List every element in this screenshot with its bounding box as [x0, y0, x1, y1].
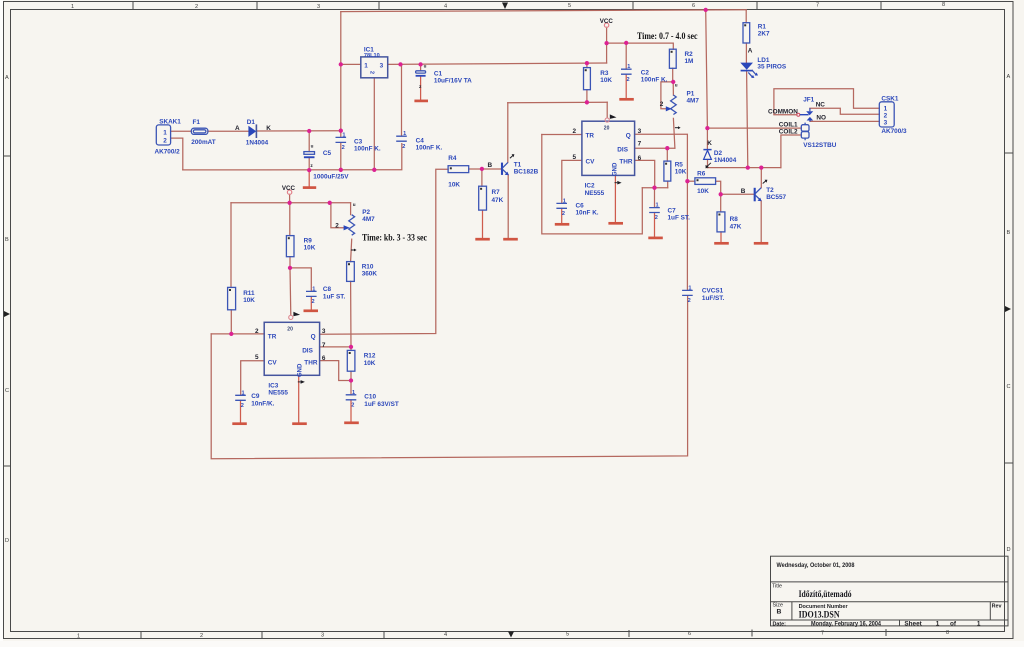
svg-text:2: 2 — [351, 402, 354, 408]
frame center marker left — [4, 311, 10, 317]
svg-text:D1: D1 — [247, 119, 256, 126]
svg-text:u: u — [353, 202, 356, 207]
frame zone numbers top — [71, 2, 945, 10]
wire R3 bottom stub — [586, 90, 588, 103]
svg-text:COMMON: COMMON — [768, 109, 798, 116]
wire IC1 pin1 stub — [341, 63, 361, 65]
svg-text:2: 2 — [342, 145, 345, 151]
svg-text:F1: F1 — [193, 119, 201, 126]
wire C10 top stub — [350, 381, 352, 395]
wire SKAK1 pin1 to F1 — [171, 130, 192, 132]
wire C5 bottom stub — [308, 158, 310, 170]
wire IC2 reset stub — [606, 102, 608, 118]
svg-text:K: K — [707, 140, 712, 147]
svg-text:u: u — [675, 82, 678, 87]
svg-text:1: 1 — [312, 286, 315, 292]
wire R10 bottom to DIS node — [350, 281, 352, 347]
svg-text:THR: THR — [304, 360, 318, 367]
wire C10 ground stub — [350, 400, 352, 422]
svg-text:A: A — [1007, 74, 1011, 80]
ground symbol C8 — [304, 309, 319, 312]
svg-text:1000uF/25V: 1000uF/25V — [313, 174, 349, 181]
svg-text:2: 2 — [255, 328, 259, 335]
wire COIL2 jog — [781, 135, 801, 168]
svg-text:C5: C5 — [323, 150, 332, 157]
ground symbol C7 — [648, 237, 663, 240]
svg-text:360K: 360K — [362, 270, 378, 277]
wire R9 bottom stub — [289, 257, 291, 268]
svg-text:8: 8 — [946, 630, 949, 636]
wire D1 cathode to C3 column (VIN rail) — [256, 130, 340, 132]
svg-text:5: 5 — [255, 354, 259, 361]
svg-text:78L10: 78L10 — [364, 53, 380, 59]
wire top rail to R1 — [745, 10, 747, 23]
wire top rail to relay column x706 — [706, 10, 708, 128]
svg-text:1: 1 — [977, 620, 981, 627]
wire IC3 Q to R4 — [320, 169, 449, 334]
svg-text:7: 7 — [816, 3, 819, 9]
svg-text:2K7: 2K7 — [758, 31, 770, 38]
svg-text:5: 5 — [568, 3, 571, 9]
wire C5 top stub — [308, 131, 310, 152]
svg-text:2: 2 — [655, 215, 658, 221]
ground symbol main — [303, 186, 316, 189]
fuse F1 — [191, 119, 215, 146]
svg-text:3: 3 — [380, 63, 384, 70]
title block — [771, 556, 1009, 626]
svg-text:THR: THR — [619, 159, 633, 166]
wire LED cathode column — [747, 72, 748, 168]
regulator IC1 — [361, 46, 388, 77]
svg-text:1: 1 — [242, 390, 245, 396]
svg-text:10nF K.: 10nF K. — [576, 209, 599, 216]
ground symbol C9 — [232, 422, 247, 425]
svg-text:of: of — [950, 620, 957, 627]
wire R2 bottom to wiper node — [672, 68, 674, 82]
svg-text:u: u — [424, 63, 427, 68]
svg-text:2: 2 — [200, 633, 203, 639]
svg-text:B: B — [741, 188, 746, 195]
svg-text:NC: NC — [816, 102, 826, 109]
wire D2 cathode stub — [706, 128, 708, 149]
wire P2 wiper jog — [331, 203, 344, 228]
node junction dots — [229, 8, 763, 383]
svg-text:10K: 10K — [448, 182, 460, 189]
ground symbol C1 — [414, 100, 428, 103]
frame zone ticks bottom — [141, 629, 886, 639]
wire R4 to T1 base — [469, 168, 502, 170]
svg-text:1: 1 — [163, 130, 167, 137]
svg-text:2: 2 — [573, 128, 577, 135]
svg-text:100nF K.: 100nF K. — [416, 144, 443, 151]
wire C7 ground stub — [654, 213, 656, 237]
svg-text:20: 20 — [604, 125, 610, 131]
svg-text:2: 2 — [627, 77, 630, 83]
capacitor C3 — [336, 132, 381, 152]
wire R9 top stub — [289, 203, 291, 236]
wire relay node line — [708, 167, 781, 169]
svg-text:100nF K.: 100nF K. — [354, 145, 381, 152]
svg-text:100nF K.: 100nF K. — [641, 76, 668, 83]
svg-text:Wednesday, October 01, 2008: Wednesday, October 01, 2008 — [777, 562, 855, 569]
svg-text:NO: NO — [816, 115, 826, 122]
wire VCC2 stub — [289, 194, 291, 202]
wire T2 base — [721, 193, 754, 195]
svg-text:AK700/2: AK700/2 — [155, 149, 181, 156]
svg-text:3: 3 — [638, 128, 642, 135]
wire F1 to D1 anode — [208, 130, 249, 132]
capacitor C7 — [649, 203, 690, 222]
wire T2 collector stub — [760, 168, 762, 188]
svg-text:C: C — [5, 388, 9, 394]
svg-text:C8: C8 — [323, 286, 332, 293]
ground symbol R7 — [475, 238, 490, 241]
svg-text:VCC: VCC — [600, 18, 614, 25]
frame center marker bottom — [508, 632, 514, 638]
resistor R9 — [286, 236, 315, 257]
wire R1 bottom to LED anode — [745, 43, 747, 62]
svg-text:47K: 47K — [492, 197, 504, 204]
wire R7 top stub — [481, 169, 483, 186]
svg-text:3: 3 — [884, 119, 888, 126]
svg-text:GND: GND — [613, 162, 619, 176]
svg-text:2: 2 — [562, 211, 565, 217]
diode D1 — [235, 119, 271, 146]
ground symbol IC2 GND — [608, 222, 623, 225]
svg-text:7: 7 — [821, 631, 824, 637]
svg-text:1uF ST.: 1uF ST. — [323, 294, 346, 301]
frame zone ticks left — [4, 156, 11, 466]
wire CVCS1 top column — [686, 181, 688, 290]
svg-text:Title: Title — [772, 584, 782, 590]
connector CSK1 — [879, 96, 907, 136]
svg-text:1uF ST.: 1uF ST. — [668, 214, 691, 221]
svg-text:5: 5 — [566, 632, 569, 638]
wire VCC2 rail — [231, 202, 351, 204]
frame center marker top — [502, 3, 508, 10]
svg-text:10uF/16V TA: 10uF/16V TA — [434, 78, 472, 85]
svg-text:10K: 10K — [675, 169, 687, 176]
wire R7 ground stub — [482, 210, 484, 238]
resistor R7 — [479, 186, 504, 210]
transistor T2 BC557 — [741, 180, 787, 202]
wire IC2 trigger loop — [542, 135, 643, 234]
wire IC3 TR pin — [211, 333, 264, 335]
transistor T1 BC182B — [488, 154, 539, 175]
wire NO to CSK1 pin3 — [810, 120, 879, 122]
wire P1 top stub — [672, 82, 674, 95]
ground symbol C10 — [344, 421, 359, 424]
resistor R2 — [669, 49, 693, 68]
svg-text:SKAK1: SKAK1 — [159, 119, 181, 126]
svg-text:3: 3 — [321, 633, 324, 639]
svg-text:10K: 10K — [243, 297, 255, 304]
svg-text:35 PIROS: 35 PIROS — [757, 64, 787, 71]
wire R12 top stub — [350, 347, 352, 351]
svg-text:Q: Q — [626, 132, 631, 139]
power symbol VCC lower — [287, 190, 291, 194]
wire D2 anode stub — [707, 160, 709, 168]
svg-text:TR: TR — [268, 334, 277, 341]
wire VIN top rail — [341, 10, 746, 12]
capacitor C2 — [621, 64, 668, 83]
svg-text:4: 4 — [444, 4, 447, 10]
svg-text:5: 5 — [573, 154, 577, 161]
resistor R5 — [664, 161, 687, 181]
wire NC to CSK1 pin2 — [810, 108, 879, 114]
capacitor CVCS1 — [682, 285, 724, 304]
wire C4 top column — [401, 64, 403, 135]
svg-text:10K: 10K — [697, 188, 709, 195]
svg-text:1N4004: 1N4004 — [714, 157, 737, 164]
ground symbol C6 — [555, 223, 570, 226]
svg-text:200mAT: 200mAT — [191, 139, 215, 146]
relay contact JF1 — [768, 97, 826, 122]
svg-text:R6: R6 — [697, 170, 706, 177]
svg-text:C9: C9 — [251, 393, 260, 400]
wire IC2 DIS pin — [635, 147, 675, 149]
frame zone letters right — [1007, 74, 1011, 553]
wire SKAK1 pin2 jog — [171, 138, 183, 170]
svg-text:Rev: Rev — [992, 604, 1002, 610]
wire IC3 GND pin stub — [298, 375, 300, 422]
resistor R4 — [448, 155, 469, 189]
svg-text:B: B — [5, 237, 9, 243]
svg-text:2: 2 — [312, 299, 315, 305]
svg-text:IDO13.DSN: IDO13.DSN — [799, 611, 840, 621]
ground symbol IC3 GND — [292, 422, 307, 425]
svg-text:Date:: Date: — [773, 621, 787, 627]
ground symbol C2 — [619, 98, 634, 101]
svg-text:NE555: NE555 — [585, 190, 605, 197]
svg-text:VS12STBU: VS12STBU — [803, 142, 836, 149]
wire VCC drop — [606, 27, 608, 63]
svg-text:R7: R7 — [492, 189, 501, 196]
svg-text:1uF 63V/ST: 1uF 63V/ST — [364, 401, 399, 408]
svg-text:10K: 10K — [304, 244, 316, 251]
ground symbol R8 — [714, 242, 729, 245]
wire R6 left stub — [687, 180, 695, 182]
wire R8 ground stub — [720, 232, 722, 242]
wire C1 ground stub — [420, 77, 422, 100]
svg-text:1: 1 — [563, 198, 566, 204]
power symbol VCC upper — [604, 23, 608, 27]
capacitor C1 tantalum — [416, 63, 473, 90]
svg-text:C: C — [1007, 384, 1011, 390]
svg-text:3: 3 — [317, 4, 320, 10]
svg-text:6: 6 — [638, 155, 642, 162]
ground symbol T1 — [503, 238, 518, 241]
svg-text:4M7: 4M7 — [362, 216, 375, 223]
svg-text:2: 2 — [163, 137, 167, 144]
svg-text:1uF/ST.: 1uF/ST. — [702, 295, 725, 302]
svg-text:D: D — [1007, 547, 1011, 553]
svg-text:20: 20 — [287, 326, 293, 332]
svg-text:K: K — [266, 125, 271, 132]
relay coil VS12STBU — [779, 122, 837, 149]
wire C8 jog — [290, 268, 311, 291]
wire IC1 pin2 to ground rail — [373, 78, 375, 170]
svg-text:IC3: IC3 — [268, 383, 278, 390]
svg-text:10K: 10K — [600, 77, 612, 84]
wire R12 bottom stub — [350, 371, 352, 380]
frame zone letters left — [5, 75, 9, 544]
svg-text:B: B — [488, 162, 493, 169]
svg-text:Q: Q — [311, 334, 316, 341]
svg-text:6: 6 — [692, 3, 695, 9]
wire COMMON to CSK1 pin1 — [774, 89, 879, 115]
wire IC3 CV jog to C9 — [241, 361, 265, 395]
svg-text:JF1: JF1 — [803, 97, 814, 104]
svg-text:BC182B: BC182B — [514, 169, 539, 176]
resistor R6 — [695, 170, 716, 195]
svg-text:2: 2 — [335, 222, 339, 229]
wire COIL1 — [707, 127, 801, 129]
wire P1 bottom to DIS line — [673, 118, 675, 148]
resistor R1 — [743, 23, 770, 43]
svg-text:VCC: VCC — [282, 185, 296, 192]
resistor R11 — [228, 287, 256, 309]
svg-text:1: 1 — [77, 634, 80, 640]
svg-text:Sheet: Sheet — [904, 620, 922, 627]
svg-text:B: B — [777, 609, 782, 616]
svg-text:GND: GND — [297, 363, 303, 377]
wire C3 top stub — [340, 131, 342, 137]
svg-text:DIS: DIS — [617, 146, 628, 153]
svg-text:B: B — [1007, 230, 1011, 236]
wire VIN column x341 — [340, 12, 342, 131]
wire IC2 GND pin stub — [614, 176, 616, 223]
wire IC2 Q pin to R6 column — [635, 134, 688, 181]
svg-text:4: 4 — [444, 632, 447, 638]
svg-text:8: 8 — [942, 2, 945, 8]
svg-text:NE555: NE555 — [268, 390, 288, 397]
wire ground symbol stub main — [308, 170, 310, 186]
svg-text:2: 2 — [660, 101, 664, 108]
ground symbol T2 — [754, 242, 769, 245]
svg-text:A: A — [5, 75, 9, 81]
wire R8 top stub — [720, 194, 722, 212]
svg-text:47K: 47K — [730, 224, 742, 231]
capacitor C9 — [235, 390, 274, 409]
svg-text:2: 2 — [195, 4, 198, 10]
ic IC3 NE555 — [255, 312, 326, 397]
svg-text:4M7: 4M7 — [687, 98, 700, 105]
svg-text:2: 2 — [241, 403, 244, 409]
svg-text:6: 6 — [322, 355, 326, 362]
wire reset node line — [508, 101, 607, 104]
capacitor C8 — [306, 286, 345, 305]
svg-text:R4: R4 — [448, 155, 457, 162]
svg-text:1: 1 — [352, 390, 355, 396]
svg-text:Időzítő,ütemadó: Időzítő,ütemadó — [799, 590, 852, 600]
wire IC3 reset stub — [289, 268, 292, 315]
frame zone numbers bottom — [77, 630, 949, 640]
wire C8 ground stub — [310, 297, 312, 310]
frame zone ticks right — [1005, 153, 1013, 463]
wire T1 collector column — [507, 103, 509, 163]
wire IC1 pin3 rail to VCC node — [388, 63, 607, 64]
wire R3 top stub — [586, 63, 588, 68]
svg-text:2: 2 — [369, 71, 375, 74]
svg-text:R8: R8 — [730, 216, 739, 223]
potentiometer P1 — [660, 82, 700, 129]
svg-text:CV: CV — [586, 159, 596, 166]
svg-text:2: 2 — [688, 298, 691, 304]
wire R11 column — [230, 203, 232, 334]
svg-text:1: 1 — [403, 131, 406, 137]
svg-text:10nF/K.: 10nF/K. — [251, 400, 274, 407]
capacitor C6 — [556, 198, 598, 217]
svg-text:DIS: DIS — [302, 347, 313, 354]
svg-text:1N4004: 1N4004 — [246, 140, 269, 147]
svg-text:D: D — [5, 538, 9, 544]
svg-text:6: 6 — [688, 631, 691, 637]
svg-text:10K: 10K — [364, 360, 376, 367]
wire IC2 TR pin — [542, 134, 582, 136]
svg-text:2: 2 — [884, 112, 888, 119]
svg-text:CSK1: CSK1 — [881, 96, 898, 103]
wire C3 bottom stub — [340, 143, 342, 170]
svg-text:Time: 0.7 - 4.0 sec: Time: 0.7 - 4.0 sec — [637, 31, 698, 41]
svg-text:TR: TR — [586, 132, 595, 139]
svg-text:1: 1 — [627, 64, 630, 70]
wire IC3 THR jog — [320, 361, 351, 381]
resistor R10 — [347, 262, 378, 282]
svg-text:2: 2 — [402, 144, 405, 150]
wire C2 ground stub — [625, 75, 627, 98]
svg-text:A: A — [235, 125, 240, 132]
connector SKAK1 — [155, 119, 182, 156]
wire P2 bottom to R10 — [351, 239, 352, 261]
capacitor C5 electrolytic — [304, 144, 349, 181]
wire C2 top stub — [625, 43, 627, 69]
wire T1 emitter stub — [507, 175, 509, 238]
svg-text:CV: CV — [268, 360, 278, 367]
wire T2 emitter stub — [760, 201, 762, 242]
svg-text:7: 7 — [322, 342, 326, 349]
wire IC3 ground loop — [211, 296, 687, 459]
svg-text:T2: T2 — [766, 187, 774, 194]
diode D2 — [703, 140, 736, 168]
wire VCC rail to R2 — [607, 43, 674, 49]
svg-text:1: 1 — [936, 620, 940, 627]
svg-text:AK700/3: AK700/3 — [881, 128, 907, 135]
wire C1 top stub — [420, 64, 422, 70]
wire R5 top stub — [666, 148, 668, 161]
wire C6 ground stub — [561, 208, 563, 223]
resistor R8 — [717, 212, 742, 232]
wire ground rail — [183, 144, 402, 170]
svg-text:A: A — [748, 47, 753, 54]
svg-text:BC557: BC557 — [766, 194, 786, 201]
svg-text:1: 1 — [71, 4, 74, 10]
svg-text:1: 1 — [688, 285, 691, 291]
svg-text:T1: T1 — [514, 162, 522, 169]
wire P1 wiper jog — [661, 82, 673, 109]
svg-text:3: 3 — [322, 328, 326, 335]
svg-text:IC2: IC2 — [585, 183, 595, 190]
svg-text:1: 1 — [342, 132, 345, 138]
svg-text:Time: kb. 3 - 33 sec: Time: kb. 3 - 33 sec — [362, 232, 427, 242]
wire R6 right jog to base node — [716, 181, 721, 194]
capacitor C4 — [396, 131, 442, 151]
svg-text:1: 1 — [656, 203, 659, 209]
resistor R3 — [584, 68, 613, 90]
ic IC2 NE555 — [573, 114, 642, 196]
svg-text:u: u — [311, 144, 314, 149]
wire C7 top stub — [654, 188, 656, 208]
